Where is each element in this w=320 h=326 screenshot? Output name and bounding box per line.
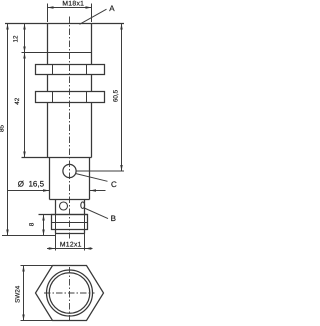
dimension 42: [24, 53, 26, 158]
dimension M18x1: [48, 7, 92, 9]
nut hex corner lines: [56, 215, 85, 230]
connector hex nut: [52, 215, 88, 230]
nut N2 SW24: [36, 92, 105, 103]
nut N2 hex corner lines: [53, 92, 87, 103]
svg-text:B: B: [111, 214, 116, 223]
barrel M18 thread right edge: [91, 24, 93, 158]
dimension 8: [43, 215, 45, 236]
svg-text:M12x1: M12x1: [60, 242, 82, 249]
wire extension SW24 bottom: [21, 320, 53, 322]
connector keyway slot: [81, 202, 85, 209]
centerline bottom view vertical: [69, 267, 71, 320]
outer circle: [47, 270, 93, 316]
dimension 85: [7, 24, 9, 236]
centerline sensor axis: [69, 17, 71, 239]
wire extension SW24 top: [21, 265, 53, 267]
leader B: [84, 208, 108, 219]
dimension 12: [24, 24, 26, 53]
connector neck: [56, 200, 85, 215]
housing body diameter 16.5: [50, 158, 90, 200]
svg-text:42: 42: [14, 97, 21, 105]
nut N1 hex corner lines: [53, 65, 87, 75]
svg-text:85: 85: [0, 125, 5, 133]
barrel M18 thread left edge: [47, 24, 49, 158]
dimension SW24: [23, 266, 25, 321]
wire nut split line: [52, 222, 88, 224]
svg-text:A: A: [109, 4, 115, 13]
wire extension M12 left: [55, 234, 57, 251]
wire extension M18 right: [91, 4, 93, 23]
svg-text:Ø 16,5: Ø 16,5: [18, 180, 45, 189]
wire top face with extension lines left and right: [5, 23, 124, 25]
svg-text:60,5: 60,5: [112, 89, 119, 102]
leader A: [80, 9, 107, 24]
M12 thread stub: [56, 230, 85, 234]
svg-text:8: 8: [29, 222, 36, 226]
dimension diameter 16.5 right arrow: [90, 190, 106, 192]
wire nut top line with 8 extension: [39, 214, 88, 216]
svg-text:M18x1: M18x1: [62, 1, 84, 8]
leader C: [76, 174, 108, 182]
nut N1 SW24: [36, 65, 105, 75]
hexagon SW24: [36, 266, 104, 321]
wire shoulder line with 42 extension: [22, 157, 92, 159]
wire extension M12 right: [84, 234, 86, 251]
dimension diameter 16.5 left arrow: [8, 190, 49, 192]
centerline bottom view horizontal: [44, 292, 95, 294]
dimension 60.5: [121, 24, 123, 172]
wire extension M18 left: [47, 4, 49, 23]
LED window circle: [63, 164, 76, 177]
svg-text:C: C: [111, 180, 117, 189]
wire thread end line with 12-42 extension: [22, 52, 92, 54]
inner circle: [49, 273, 90, 314]
svg-text:12: 12: [13, 35, 20, 43]
dimension M12x1: [47, 248, 93, 250]
wire extension connector end: [2, 235, 56, 237]
wire extension LED centre: [76, 170, 124, 172]
connector face circle: [60, 202, 68, 210]
svg-text:SW24: SW24: [15, 285, 22, 303]
